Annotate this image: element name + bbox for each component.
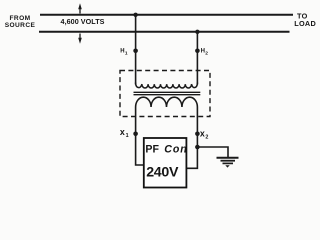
wire H1 drop from top line: [135, 15, 137, 85]
transformer primary winding: [136, 83, 198, 88]
ground symbol: [217, 158, 239, 168]
terminal dot H2: [195, 49, 200, 54]
svg-text:x: x: [200, 128, 205, 138]
svg-text:1: 1: [126, 133, 129, 139]
label X2: [200, 128, 209, 140]
svg-text:SOURCE: SOURCE: [5, 22, 36, 29]
junction dot on X2 wire: [195, 145, 200, 150]
label FROM SOURCE: [5, 15, 36, 29]
label H2: [201, 48, 209, 56]
label PF Con: [145, 144, 187, 156]
terminal dot X2: [195, 132, 200, 137]
transformer T1 dashed enclosure: [120, 71, 210, 117]
svg-text:2: 2: [205, 134, 208, 140]
transformer core (two bars): [134, 91, 201, 93]
svg-text:4,600 VOLTS: 4,600 VOLTS: [61, 17, 105, 26]
svg-text:240V: 240V: [146, 165, 179, 181]
svg-text:LOAD: LOAD: [294, 19, 316, 28]
terminal dot H1: [133, 49, 138, 54]
label TO LOAD: [294, 11, 316, 28]
wire H2 drop from bottom line: [196, 32, 198, 85]
terminal dot X1: [133, 132, 138, 137]
label X1: [120, 127, 129, 139]
svg-text:PF: PF: [145, 144, 159, 156]
svg-text:x: x: [120, 127, 125, 137]
wire top line (source conductor A): [40, 14, 293, 16]
wire X1 to load box: [136, 134, 144, 165]
svg-text:2: 2: [205, 51, 208, 57]
svg-text:1: 1: [125, 51, 128, 57]
wire X2 down: [187, 134, 198, 169]
label H1: [120, 48, 128, 56]
arrow up (dimension arrow above top line): [78, 3, 82, 13]
svg-text:Con: Con: [164, 144, 188, 156]
load box PF Con 240V: [144, 138, 187, 188]
junction dot on bottom line: [195, 30, 199, 34]
wire bottom line (source conductor B): [39, 31, 290, 33]
wire to ground: [197, 147, 228, 157]
arrow down (dimension arrow below bottom line): [78, 34, 82, 44]
junction dot on top line: [133, 13, 137, 17]
transformer secondary winding: [136, 97, 198, 133]
